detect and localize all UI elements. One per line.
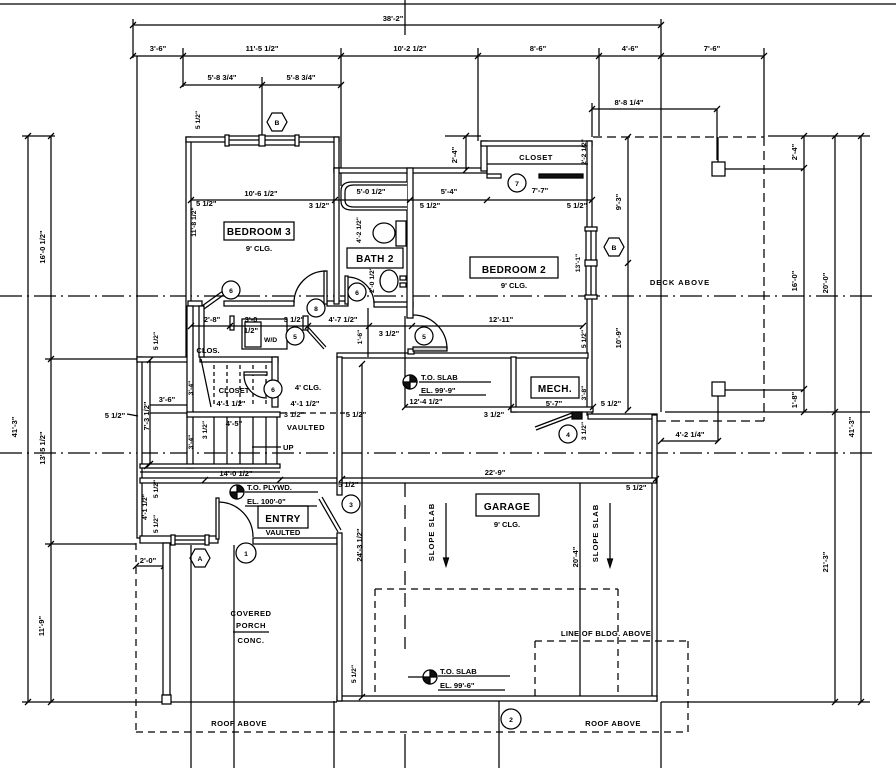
roof above dashed corner right xyxy=(535,641,688,732)
door tag circle 5 (W/D) xyxy=(286,327,304,345)
right dim line 2'-4"/16'-0"/1'-8" xyxy=(790,133,807,415)
svg-text:CLOS.: CLOS. xyxy=(196,346,219,355)
left extension lines xyxy=(22,135,55,137)
stair dashed risers (under closet) xyxy=(214,365,266,406)
mech south wall xyxy=(511,407,593,412)
closet wall left of stairs xyxy=(199,306,204,357)
right extension lines xyxy=(768,135,870,137)
door 8 bedroom3 entry: leaf and arc xyxy=(294,271,327,304)
svg-text:20'-0": 20'-0" xyxy=(821,272,830,293)
bedroom2 closet shelf xyxy=(487,163,588,165)
svg-text:VAULTED: VAULTED xyxy=(266,528,301,537)
east exterior wall above window xyxy=(587,141,592,229)
svg-text:3 1/2": 3 1/2" xyxy=(284,315,305,324)
svg-text:5'-0 1/2": 5'-0 1/2" xyxy=(356,187,385,196)
dim 20'-4" vertical xyxy=(571,483,586,696)
svg-text:7'-7": 7'-7" xyxy=(532,186,549,195)
svg-text:20'-4": 20'-4" xyxy=(571,546,580,567)
horizontal centerline lower xyxy=(0,452,875,454)
west wall step at stairs xyxy=(137,357,191,362)
svg-text:5: 5 xyxy=(422,334,426,341)
svg-text:22'-9": 22'-9" xyxy=(485,468,506,477)
svg-text:EL. 99'-6": EL. 99'-6" xyxy=(440,681,475,690)
T.O. PLYWD marker xyxy=(230,483,318,506)
dim 4'-2 1/4" xyxy=(658,430,721,444)
bath east wall xyxy=(407,168,413,318)
BATH 2 label box xyxy=(347,248,403,268)
slope slab left xyxy=(427,503,449,566)
svg-text:4: 4 xyxy=(566,432,570,439)
svg-text:B: B xyxy=(612,245,617,252)
door tag circle 4 (mech) xyxy=(559,425,577,443)
left dim line 16'-0 1/2" / 13'-5 1/2" / 11'-9" xyxy=(37,133,54,705)
svg-text:12'-4 1/2": 12'-4 1/2" xyxy=(409,397,443,406)
svg-text:ROOF ABOVE: ROOF ABOVE xyxy=(585,719,641,728)
door tag circle 6 (bath2) xyxy=(348,283,366,301)
bedroom3 south wall stub west xyxy=(188,301,202,306)
door 4 mech: diagonal leaf and hinge xyxy=(535,412,582,430)
west exterior wall upper (bedroom 3) xyxy=(186,137,191,357)
svg-text:BEDROOM 3: BEDROOM 3 xyxy=(227,227,291,238)
BEDROOM 3 label box xyxy=(224,222,294,253)
bath south wall xyxy=(374,302,413,307)
bedroom 3 north window xyxy=(225,135,299,146)
svg-text:EL. 100'-0": EL. 100'-0" xyxy=(247,497,286,506)
up arrow line xyxy=(252,446,281,448)
svg-text:4'-1 1/2": 4'-1 1/2" xyxy=(216,399,245,408)
svg-text:38'-2": 38'-2" xyxy=(383,14,404,23)
svg-text:8: 8 xyxy=(314,306,318,313)
roof above dashed outline left xyxy=(136,543,688,732)
svg-text:4'-6": 4'-6" xyxy=(622,44,639,53)
grid line extensions below building xyxy=(190,545,192,768)
garage northeast jog wall xyxy=(588,414,657,419)
svg-text:3 1/2": 3 1/2" xyxy=(284,410,305,419)
deck dashed outline xyxy=(593,136,764,138)
svg-text:PORCH: PORCH xyxy=(236,621,266,630)
dim 2'-0" porch xyxy=(133,556,167,569)
svg-text:16'-0 1/2": 16'-0 1/2" xyxy=(38,230,47,264)
GARAGE label box xyxy=(476,494,539,529)
bedroom 2 east window xyxy=(585,227,597,299)
porch post SW xyxy=(162,695,171,704)
svg-text:5'-8 3/4": 5'-8 3/4" xyxy=(286,73,315,82)
door tag circle 7 (bedroom2 closet) xyxy=(508,174,526,192)
right dim line 41'-3" xyxy=(847,133,864,705)
east exterior wall below window xyxy=(587,297,592,415)
svg-text:VAULTED: VAULTED xyxy=(287,423,325,432)
svg-text:8'-6": 8'-6" xyxy=(530,44,547,53)
svg-text:3 1/2": 3 1/2" xyxy=(379,329,400,338)
svg-text:1'-8": 1'-8" xyxy=(790,391,799,408)
dim 24'-3 1/2" vertical xyxy=(355,361,368,700)
horizontal centerline upper xyxy=(0,295,875,297)
svg-text:7'-3 1/2": 7'-3 1/2" xyxy=(142,401,151,430)
svg-text:6: 6 xyxy=(229,288,233,295)
svg-text:GARAGE: GARAGE xyxy=(484,502,530,513)
5 1/2" leader at west wall xyxy=(105,411,138,420)
svg-text:5 1/2": 5 1/2" xyxy=(420,201,441,210)
svg-text:2'-4": 2'-4" xyxy=(450,146,459,163)
svg-text:14'-0 1/2": 14'-0 1/2" xyxy=(219,469,253,478)
BEDROOM 2 label box xyxy=(470,257,558,290)
svg-text:3 1/2": 3 1/2" xyxy=(581,422,588,440)
north wall bedroom 3 left of window xyxy=(186,137,227,142)
svg-text:ROOF ABOVE: ROOF ABOVE xyxy=(211,719,267,728)
svg-text:9' CLG.: 9' CLG. xyxy=(494,520,520,529)
svg-text:COVERED: COVERED xyxy=(230,609,271,618)
window tag hexagon A (porch) xyxy=(190,549,210,567)
svg-text:9' CLG.: 9' CLG. xyxy=(501,281,527,290)
svg-text:10'-9": 10'-9" xyxy=(614,327,623,348)
left dim line 41'-3" xyxy=(10,133,31,705)
entry east / garage west wall upper xyxy=(337,357,342,495)
bathtub xyxy=(341,182,407,210)
svg-text:5 1/2": 5 1/2" xyxy=(351,665,358,683)
door tag circle 8 xyxy=(307,299,325,317)
dimension 38'-2" overall top xyxy=(130,14,664,28)
svg-text:T.O. SLAB: T.O. SLAB xyxy=(440,667,477,676)
svg-text:4'-2 1/4": 4'-2 1/4" xyxy=(675,430,704,439)
svg-text:5 1/2": 5 1/2" xyxy=(338,480,359,489)
stair bottom edge xyxy=(140,464,280,468)
deck post upper xyxy=(712,162,725,176)
line of building above dashed rect xyxy=(375,589,618,696)
extension lines top xyxy=(132,19,134,58)
svg-text:CLOSET: CLOSET xyxy=(519,153,553,162)
toilet xyxy=(373,221,406,246)
dimension row 5'-8 3/4" x2 xyxy=(180,73,344,88)
garage north wall xyxy=(342,478,656,483)
svg-text:ENTRY: ENTRY xyxy=(265,514,301,525)
svg-text:24'-3 1/2": 24'-3 1/2" xyxy=(355,528,364,562)
garage east wall xyxy=(652,415,657,701)
deck post lower xyxy=(712,382,725,396)
svg-text:8'-8 1/4": 8'-8 1/4" xyxy=(614,98,643,107)
grid line stub top center xyxy=(404,0,406,35)
dim 14'-0 1/2" xyxy=(140,471,280,473)
svg-text:9'-3": 9'-3" xyxy=(614,193,623,210)
bedroom3 south wall center xyxy=(224,301,294,306)
svg-text:5 1/2": 5 1/2" xyxy=(581,330,588,348)
mech west wall xyxy=(511,357,516,412)
closet west step wall xyxy=(481,141,487,171)
grid tag circle 2 xyxy=(501,709,521,729)
svg-text:2'-8": 2'-8" xyxy=(204,315,221,324)
door tag circle 3 (entry) xyxy=(342,495,360,513)
svg-text:5 1/2": 5 1/2" xyxy=(601,399,622,408)
grid tag circle 1 (porch) xyxy=(236,543,256,563)
dim row y200: 10'-6 1/2" etc xyxy=(188,186,595,210)
door 5 W/D bifold: diagonal leaf xyxy=(230,316,326,349)
svg-text:3'-6": 3'-6" xyxy=(159,395,176,404)
svg-text:5: 5 xyxy=(293,334,297,341)
entry east / garage west wall lower xyxy=(337,533,342,701)
svg-text:3 1/2": 3 1/2" xyxy=(309,201,330,210)
svg-text:11'-8 1/2": 11'-8 1/2" xyxy=(191,207,198,236)
dim row y326 hall xyxy=(188,315,586,338)
svg-text:11'-5 1/2": 11'-5 1/2" xyxy=(246,44,279,53)
svg-text:BEDROOM 2: BEDROOM 2 xyxy=(482,265,546,276)
svg-text:2: 2 xyxy=(509,717,513,724)
svg-text:CLOSET: CLOSET xyxy=(219,386,250,395)
svg-text:3'-6": 3'-6" xyxy=(150,44,167,53)
svg-text:EL. 99'-9": EL. 99'-9" xyxy=(421,386,456,395)
entry south window xyxy=(171,535,209,545)
corridor divider line xyxy=(367,308,369,357)
svg-text:6: 6 xyxy=(271,387,275,394)
svg-text:7'-6": 7'-6" xyxy=(704,44,721,53)
svg-text:2'-0 1/2": 2'-0 1/2" xyxy=(369,267,376,293)
svg-text:16'-0": 16'-0" xyxy=(790,270,799,291)
garage interior grid dashed x405 xyxy=(404,483,406,649)
corridor/bedroom2 south wall xyxy=(337,353,588,358)
dim x405 vertical extension xyxy=(404,316,406,407)
svg-text:11'-9": 11'-9" xyxy=(37,616,46,637)
stair diagonal mark xyxy=(201,359,211,407)
svg-text:6: 6 xyxy=(355,290,359,297)
dim row y407 mech xyxy=(402,397,622,419)
door tag circle 5 (bedroom2) xyxy=(415,327,433,345)
dim 3'-6" stair xyxy=(150,395,187,405)
dim x150 vertical 7'-3 1/2" xyxy=(142,357,153,467)
svg-text:SLOPE SLAB: SLOPE SLAB xyxy=(427,503,436,562)
sheet top border xyxy=(0,3,896,5)
stair landing edge xyxy=(187,412,280,417)
entry south wall west of window xyxy=(140,536,173,543)
window tag hexagon B (bedroom3) xyxy=(267,113,287,131)
svg-text:SLOPE SLAB: SLOPE SLAB xyxy=(591,504,600,563)
svg-text:4'-7 1/2": 4'-7 1/2" xyxy=(328,315,357,324)
svg-text:5 1/2": 5 1/2" xyxy=(153,480,160,498)
svg-text:BATH 2: BATH 2 xyxy=(356,254,394,265)
ENTRY label box xyxy=(258,506,308,537)
door 1 front entry: leaf and arc xyxy=(216,498,253,539)
svg-text:2'-2 1/2": 2'-2 1/2" xyxy=(581,139,588,165)
door 3 entry side: diagonal leaf xyxy=(319,497,341,532)
garage dim 22'-9" xyxy=(338,468,659,492)
svg-text:4'-1 1/2": 4'-1 1/2" xyxy=(142,494,149,520)
slope slab right xyxy=(591,503,613,567)
wall step at bath NW xyxy=(334,137,339,171)
vaulted line labels xyxy=(150,412,187,414)
dim 2'-4" closet step xyxy=(445,133,481,173)
top dimension row: 3'-6", 11'-5 1/2", 10'-2 1/2", 8'-6", 4'-6", 7'-6" xyxy=(130,44,767,59)
washer/dryer box xyxy=(242,319,287,349)
bath west wall xyxy=(334,168,339,304)
svg-text:4' CLG.: 4' CLG. xyxy=(295,383,321,392)
svg-text:5 1/2": 5 1/2" xyxy=(626,483,647,492)
svg-text:5 1/2": 5 1/2" xyxy=(153,515,160,533)
svg-text:5'-4": 5'-4" xyxy=(441,187,458,196)
svg-text:10'-6 1/2": 10'-6 1/2" xyxy=(244,189,278,198)
svg-text:5'-7": 5'-7" xyxy=(546,399,563,408)
west exterior wall lower (entry) xyxy=(137,357,142,538)
svg-text:5 1/2": 5 1/2" xyxy=(196,199,217,208)
door 6 bedroom3 closet: diagonal leaf xyxy=(202,288,229,309)
svg-text:13'-5 1/2": 13'-5 1/2" xyxy=(38,431,47,465)
svg-text:41'-3": 41'-3" xyxy=(10,416,19,437)
garage south wall xyxy=(337,696,657,701)
right dim line 20'-0"/21'-3" xyxy=(821,133,838,705)
svg-text:UP: UP xyxy=(283,443,294,452)
north wall bedroom 3 right of window xyxy=(297,137,339,142)
svg-text:3 1/2": 3 1/2" xyxy=(484,410,505,419)
placeholder groups filled below xyxy=(130,14,767,412)
svg-text:MECH.: MECH. xyxy=(538,384,572,395)
T.O. slab 99'-9" marker xyxy=(403,373,491,395)
svg-text:2'-0": 2'-0" xyxy=(140,556,157,565)
svg-text:12'-11": 12'-11" xyxy=(489,315,514,324)
entry south wall between window and door xyxy=(207,536,218,543)
svg-text:4'-5": 4'-5" xyxy=(226,419,243,428)
door 6 bath2: leaf and arc xyxy=(345,276,374,304)
svg-text:4'-2 1/2": 4'-2 1/2" xyxy=(356,217,363,243)
svg-text:A: A xyxy=(198,556,203,563)
svg-text:DECK ABOVE: DECK ABOVE xyxy=(650,278,710,287)
bedroom2 door jamb xyxy=(408,349,414,354)
MECH label box xyxy=(531,377,579,408)
bedroom2 closet rod xyxy=(539,174,583,178)
svg-text:W/D: W/D xyxy=(264,337,277,344)
svg-text:3'-4": 3'-4" xyxy=(188,381,195,396)
svg-text:1'-6": 1'-6" xyxy=(357,330,364,345)
svg-text:LINE OF BLDG. ABOVE: LINE OF BLDG. ABOVE xyxy=(561,629,651,638)
svg-text:3 1/2": 3 1/2" xyxy=(202,421,209,439)
dim 9'-3" / 10'-9" deck xyxy=(614,134,631,413)
hall south wall under door8 xyxy=(327,301,348,306)
svg-text:B: B xyxy=(275,120,280,127)
entry/porch south wall east of door xyxy=(253,538,337,544)
door tag circle 6 (understair) xyxy=(264,380,282,398)
bedroom2 closet front jamb xyxy=(487,174,501,178)
interior wall west of stairs xyxy=(187,306,193,468)
svg-text:5 1/2": 5 1/2" xyxy=(105,411,126,420)
svg-text:2'-4": 2'-4" xyxy=(790,143,799,160)
svg-text:CONC.: CONC. xyxy=(238,636,265,645)
svg-text:1/2": 1/2" xyxy=(244,326,259,335)
T.O. slab 99'-6" marker xyxy=(408,667,510,690)
stair solid risers xyxy=(214,417,277,464)
svg-text:13'-1": 13'-1" xyxy=(575,254,582,272)
svg-text:3'-4": 3'-4" xyxy=(188,435,195,450)
window tag hexagon B (bedroom2) xyxy=(604,238,624,256)
svg-text:41'-3": 41'-3" xyxy=(847,416,856,437)
porch west edge xyxy=(163,543,170,695)
svg-text:10'-2 1/2": 10'-2 1/2" xyxy=(393,44,427,53)
svg-text:9' CLG.: 9' CLG. xyxy=(246,244,272,253)
svg-text:5'-8 3/4": 5'-8 3/4" xyxy=(207,73,236,82)
bath sink xyxy=(380,270,406,292)
svg-text:3'-8": 3'-8" xyxy=(581,386,588,401)
hall south wall (entry north) xyxy=(140,478,337,483)
door 6 understair closet: leaf and arc xyxy=(244,372,267,398)
svg-text:3'-0: 3'-0 xyxy=(245,315,258,324)
dimension 8'-8 1/4" to deck post xyxy=(589,98,720,160)
stair right wall xyxy=(272,357,278,407)
svg-text:5 1/2": 5 1/2" xyxy=(346,410,367,419)
svg-text:5 1/2": 5 1/2" xyxy=(153,332,160,350)
stair top wall xyxy=(200,357,278,362)
bath 2 north wall xyxy=(334,168,487,173)
door 5 bedroom2: leaf and arc xyxy=(413,315,447,351)
svg-text:5 1/2": 5 1/2" xyxy=(567,201,588,210)
svg-text:3: 3 xyxy=(349,502,353,509)
svg-text:T.O. SLAB: T.O. SLAB xyxy=(421,373,458,382)
svg-text:5 1/2": 5 1/2" xyxy=(195,111,202,129)
svg-text:7: 7 xyxy=(515,181,519,188)
svg-text:21'-3": 21'-3" xyxy=(821,551,830,572)
svg-text:1: 1 xyxy=(244,551,248,558)
bedroom 2 closet north wall xyxy=(481,141,592,146)
svg-text:T.O. PLYWD.: T.O. PLYWD. xyxy=(247,483,292,492)
door tag circle 6 (bedroom3 closet) xyxy=(222,281,240,299)
covered porch label xyxy=(230,609,271,645)
svg-text:4'-1 1/2": 4'-1 1/2" xyxy=(290,399,319,408)
